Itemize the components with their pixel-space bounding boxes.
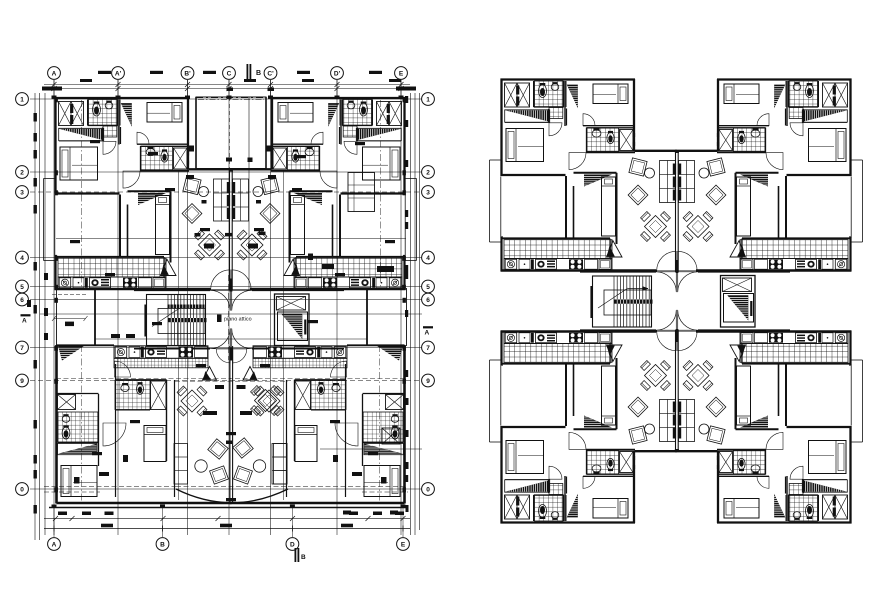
- stairwell outer box: [147, 295, 206, 346]
- entry arc bottom center right: [232, 328, 252, 348]
- svg-text:D': D': [334, 70, 341, 77]
- atrio center dashed line: [228, 275, 230, 360]
- section arrow A right: [423, 326, 433, 328]
- central living top: [614, 150, 740, 272]
- stair direction arrow: [598, 288, 628, 308]
- extra small blobs: [27, 300, 31, 307]
- svg-text:1: 1: [20, 96, 24, 103]
- elevator car: [278, 312, 308, 341]
- central living top (left plan): [168, 169, 294, 291]
- svg-text:5: 5: [20, 284, 24, 291]
- apartment module bottom-left: [490, 331, 677, 524]
- section arrow A left: [21, 314, 31, 316]
- elevator handle bar: [304, 320, 306, 335]
- entry wall stub: [230, 279, 233, 292]
- svg-text:6: 6: [20, 297, 24, 304]
- apartment module top-right: [675, 79, 862, 272]
- svg-text:A: A: [52, 70, 57, 77]
- svg-text:B': B': [184, 70, 191, 77]
- svg-text:4: 4: [20, 255, 24, 262]
- left dimension lines: [34, 93, 36, 540]
- apartment module top-left (left plan): [44, 97, 231, 290]
- apartment module top-right (left plan): [229, 97, 416, 290]
- stair landing dark bar: [168, 318, 207, 322]
- extra wardrobe bottom-right: [382, 428, 400, 444]
- entry wall stub bottom: [230, 348, 233, 361]
- svg-text:0: 0: [426, 486, 430, 493]
- horizontal axis lines: [30, 98, 422, 100]
- svg-text:5: 5: [426, 284, 430, 291]
- top dim end bars: [42, 87, 62, 91]
- stairwell left wall: [590, 286, 592, 318]
- stair treads: [613, 276, 615, 327]
- piano attico label: [217, 315, 222, 323]
- blc balcony dashed: [176, 486, 288, 488]
- bottom-right module (left plan): [230, 345, 406, 504]
- stairwell outer box: [593, 276, 652, 327]
- axis markers bottom: [48, 538, 61, 551]
- svg-text:piano attico: piano attico: [224, 317, 252, 323]
- dimension framework: [35, 85, 420, 541]
- apartment module top-left: [490, 79, 677, 272]
- vertical axis lines: [53, 80, 55, 535]
- axis markers right: [422, 93, 435, 106]
- bottom dimension lines: [44, 517, 410, 519]
- elevator X box: [277, 297, 306, 311]
- mid dimension arrow line: [54, 318, 86, 320]
- blc entrance arcs: [216, 349, 230, 363]
- axis markers left: [16, 93, 29, 106]
- entry arc top center left: [656, 272, 676, 292]
- dash-dot verticals top half: [81, 100, 83, 290]
- center section top walls: [580, 271, 656, 273]
- elevator shaft: [721, 276, 756, 328]
- svg-text:2: 2: [426, 169, 430, 176]
- left plan bottom wall band: [49, 507, 407, 509]
- elevator X box: [723, 278, 752, 292]
- svg-text:0: 0: [20, 486, 24, 493]
- hall cabinet top-right: [348, 173, 375, 212]
- wall tick marks: [52, 96, 57, 99]
- top dimension lines: [44, 84, 410, 86]
- section mark B top: [247, 64, 249, 80]
- svg-text:E: E: [399, 70, 404, 77]
- section mark bottom: [295, 548, 297, 562]
- left living extra lines: [56, 238, 406, 240]
- bottom quadrant blobs: [74, 477, 80, 484]
- central living bottom: [614, 331, 740, 453]
- svg-text:9: 9: [426, 378, 430, 385]
- svg-text:3: 3: [426, 189, 430, 196]
- stair landing dark bar: [614, 300, 653, 304]
- courtyard box top-center: [196, 97, 266, 169]
- dimension text blobs: [98, 71, 111, 74]
- svg-text:B: B: [160, 541, 165, 548]
- extra right/bottom blobs: [406, 398, 409, 405]
- left plan: [44, 97, 417, 504]
- svg-text:B: B: [256, 70, 261, 77]
- center section bottom walls: [134, 348, 210, 350]
- svg-text:2: 2: [20, 169, 24, 176]
- svg-text:9: 9: [20, 378, 24, 385]
- svg-text:C: C: [227, 70, 232, 77]
- entry arc top center right: [232, 290, 252, 310]
- svg-text:B: B: [301, 554, 306, 561]
- mid-band blobs: [44, 273, 48, 280]
- blc dining right: [255, 390, 277, 412]
- svg-text:6: 6: [426, 297, 430, 304]
- left living blobs: [202, 200, 207, 204]
- blc sofa right: [272, 444, 287, 485]
- left plan top wall across courtyard: [196, 97, 266, 99]
- svg-text:4: 4: [426, 255, 430, 262]
- blc entry triangles: [203, 367, 217, 381]
- blc blobs: [203, 411, 217, 415]
- stair inner rail: [158, 309, 205, 334]
- stair second landing bar: [168, 305, 205, 309]
- elevator shaft: [275, 294, 310, 346]
- elevator handle bar: [750, 301, 752, 316]
- apartment module bottom-right: [675, 331, 862, 524]
- svg-text:3: 3: [20, 189, 24, 196]
- blc circles: [195, 460, 207, 472]
- entry arc bottom center left: [656, 310, 676, 330]
- svg-text:E: E: [401, 541, 406, 548]
- blc central wall: [229, 346, 231, 502]
- svg-text:7: 7: [20, 345, 24, 352]
- stair direction arrow: [152, 307, 182, 327]
- bottom-left module (left plan): [56, 345, 232, 504]
- right dimension lines: [410, 93, 412, 535]
- entry arc bottom center right: [678, 310, 698, 330]
- bottom dashed guides: [44, 486, 176, 488]
- kitchen hatch blobs top-right: [322, 264, 334, 269]
- axis markers top: [48, 67, 61, 80]
- svg-text:7: 7: [426, 345, 430, 352]
- svg-text:D: D: [290, 541, 295, 548]
- entry arc top center left: [210, 290, 230, 310]
- entry arc top center right: [678, 272, 698, 292]
- svg-text:A: A: [22, 318, 27, 325]
- stair inner rail: [604, 290, 651, 315]
- entry wall stub: [676, 260, 679, 273]
- svg-text:A: A: [425, 330, 430, 337]
- right plan: [490, 79, 863, 524]
- svg-text:A: A: [52, 541, 57, 548]
- blc armchair diamonds: [208, 439, 228, 459]
- svg-text:A': A': [115, 70, 122, 77]
- svg-text:C': C': [267, 70, 274, 77]
- svg-text:1: 1: [426, 96, 430, 103]
- entry arc bottom center left: [210, 328, 230, 348]
- elevator car: [724, 294, 754, 323]
- left plan mid-band walls: [56, 288, 58, 346]
- blc balcony arc: [176, 489, 288, 503]
- stair core (left plan): [134, 279, 344, 361]
- entry wall stub bottom: [676, 329, 679, 342]
- center section top walls: [134, 289, 210, 291]
- interior annotation blobs: [90, 140, 100, 143]
- center section bottom walls: [580, 329, 656, 331]
- stairwell left wall: [144, 305, 146, 337]
- stair treads: [167, 295, 169, 346]
